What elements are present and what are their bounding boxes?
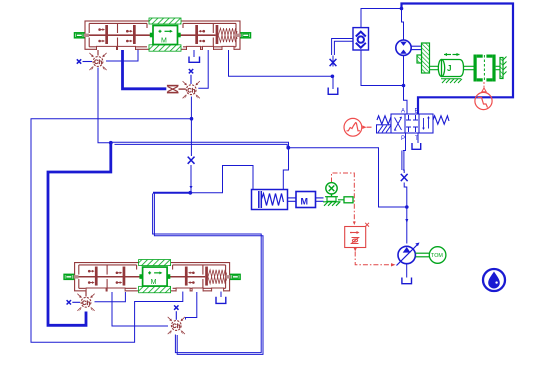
- node J7 junction dot: [188, 191, 192, 195]
- svg-text:M: M: [161, 38, 167, 45]
- red dash-dot link from box to pump P2: [355, 252, 391, 265]
- svg-text:TOM: TOM: [431, 253, 443, 259]
- wire: thick loop from J1 over top right down to valve port B: [402, 4, 514, 115]
- node J3 junction dot: [405, 205, 409, 209]
- wire: top tank stub: [193, 50, 195, 58]
- chamber Ch1b: [77, 294, 94, 312]
- clutch gap dashed line: [483, 55, 485, 81]
- red x marker at box corner: [365, 223, 369, 227]
- wire: top valve stub to Ch1a right pin: [106, 50, 138, 62]
- position transducer XD1 (green circle with X): [326, 183, 337, 197]
- wire: top valve stub down to Ch2a right pin: [198, 50, 208, 88]
- hydraulic cylinder CYL1: [252, 190, 288, 210]
- shaft inertia to clutch: [464, 66, 474, 69]
- wire: pump P1 bottom to junction J2: [403, 55, 405, 85]
- return spring: [218, 28, 237, 42]
- spool rod: [85, 34, 216, 36]
- chamber arrows: [99, 28, 205, 42]
- tank T3 under pump P2: [402, 278, 412, 284]
- tank T0 under top valve: [189, 57, 200, 63]
- wire: thick line J4 down-left-down to Ch1b bottom: [48, 143, 111, 325]
- node J8 junction dot: [331, 75, 335, 79]
- mass box M (green): [150, 26, 181, 45]
- left mech connector (green): [75, 33, 85, 38]
- wire: pump P2 bottom to tank T3: [406, 264, 408, 278]
- signal pin x of Ch1b: [67, 300, 80, 304]
- wire: double pair long loop to Ch2b: [153, 194, 262, 353]
- rotary inertia J1r: [438, 60, 463, 77]
- arrow into pump swashplate: [391, 263, 396, 266]
- svg-text:A: A: [401, 109, 405, 115]
- arrow at box bottom: [354, 248, 357, 252]
- wire: valve port T stub to tank T2: [417, 133, 419, 143]
- tank T4 under bottom valve: [216, 297, 226, 304]
- wire: orifice O2 to junction J7: [190, 165, 192, 193]
- clutch right plate: [486, 55, 495, 82]
- wire: J2 left to check valve bottom: [361, 50, 404, 86]
- orifice O1: [330, 59, 337, 66]
- rod mass to transducer: [316, 198, 324, 201]
- rotary sensor S1 (red circle): [475, 92, 492, 109]
- signal pin x of Ch2b: [174, 305, 178, 319]
- right mech connector (green): [241, 33, 251, 38]
- valve body casing: [85, 21, 240, 49]
- wire: check valve top to junction J1: [361, 9, 402, 28]
- arrows above inertia: [444, 53, 460, 56]
- svg-text:Ch: Ch: [94, 59, 102, 66]
- DV1 left cell crossed arrows: [394, 117, 402, 131]
- wire: orifice O3 down to junction J3: [404, 183, 407, 244]
- bottom port notches: [97, 46, 235, 50]
- transducer pedestal with ground: [323, 197, 341, 206]
- tank T1: [328, 88, 338, 95]
- pipe: double lines from O1 up to check valve left: [332, 39, 353, 56]
- shaft pump P2 to TOM: [415, 253, 429, 257]
- svg-text:T: T: [415, 136, 419, 142]
- arrow above J7: [190, 186, 193, 189]
- piston rod to mass: [288, 198, 297, 201]
- chamber Ch2b: [168, 317, 185, 335]
- wire: top valve thick stub to butterfly: [123, 50, 167, 89]
- DV1 left solenoid box: [377, 125, 392, 133]
- tank T2 under valve T port: [412, 143, 421, 149]
- left connector pad: [84, 34, 89, 37]
- arrow into J6: [190, 117, 193, 120]
- wire: J2 down to valve port A: [404, 86, 408, 115]
- DV1 centre cell blocked ports: [406, 115, 418, 132]
- wire: J5 down to cylinder head port: [283, 148, 288, 190]
- wire: J1 down to pump P1 top: [402, 9, 404, 41]
- wire: Ch2a bottom down through J6 to orifice O2: [190, 97, 192, 157]
- wire: J7 right staircase to cylinder rod-side port: [190, 166, 253, 193]
- node J1 junction dot: [400, 7, 404, 11]
- node J2 junction dot: [402, 84, 406, 88]
- wire: J7 left to pair corner: [153, 192, 190, 194]
- svg-text:M: M: [301, 197, 309, 207]
- prime mover TOM: [429, 247, 446, 264]
- node J4 junction dot: [109, 141, 113, 145]
- DV1 right cell straight arrows: [422, 116, 430, 130]
- signal pin x of Ch2a: [189, 69, 193, 84]
- orifice O3: [401, 174, 408, 181]
- signal source SRC1 (red circle with ramp): [344, 118, 372, 136]
- chamber Ch1a: [89, 53, 106, 71]
- shaft pump P1 to rack: [411, 46, 421, 49]
- arrow into box top: [353, 222, 356, 226]
- link to anchor block: [338, 199, 344, 201]
- green hatched strips: [149, 18, 181, 24]
- node J5 junction dot: [286, 146, 290, 150]
- wire: double pair from J4 to cylinder node J5: [112, 141, 289, 143]
- wire: long run from cylinder node to J3: [289, 148, 407, 207]
- piston bars: [105, 25, 218, 44]
- red dash-dot link from transducer to box: [332, 173, 355, 222]
- DV1 right spring: [433, 116, 449, 124]
- wire: Ch1a bottom down to junction J4: [98, 68, 111, 143]
- node J6 junction dot: [190, 117, 194, 121]
- shaft rack to inertia J: [430, 66, 439, 69]
- wire: J8 down to tank T1: [332, 76, 334, 89]
- anchor block (green): [344, 197, 353, 203]
- maroon stub valve to Ch1b: [85, 292, 87, 297]
- check valve CV1: [353, 28, 369, 50]
- signal control box SB1 (red): [345, 227, 366, 248]
- orifice O2: [188, 157, 195, 164]
- fluid properties icon DROP: [483, 269, 505, 291]
- svg-text:P: P: [401, 136, 405, 142]
- pump P2 variable displacement: [397, 243, 420, 266]
- rack gear element (green): [417, 43, 430, 73]
- butterfly orifice BF1: [167, 85, 186, 94]
- wire: bottom valve stub D to Ch2b NE pin: [186, 292, 197, 320]
- wire: J8 up to orifice O1: [332, 56, 334, 67]
- clutch output shaft stub: [496, 66, 500, 69]
- svg-text:J: J: [447, 64, 451, 73]
- signal pin x of Ch1a: [77, 59, 92, 63]
- wall anchor right of clutch: [500, 57, 507, 79]
- clutch left plate: [474, 55, 483, 82]
- wire: bottom valve stub A down right to Ch2b left pin: [112, 292, 168, 326]
- wire: top valve right stub to junction J8: [229, 50, 333, 76]
- wire: long left loop from bottom valve port to junction J6: [31, 119, 190, 342]
- DV1 port labels: [401, 109, 419, 143]
- right connector pad: [236, 34, 241, 37]
- pump P1 (hydraulic motor): [396, 40, 411, 55]
- wire: bottom tank stub: [220, 291, 222, 298]
- wire: bottom valve stub B left to Ch1b right pin: [95, 292, 126, 302]
- chamber Ch2a: [183, 81, 200, 99]
- red dashed link clutch to sensor: [482, 82, 486, 92]
- ground under inertia: [441, 79, 462, 83]
- wire: valve port P down to orifice O3: [403, 133, 406, 151]
- directional valve DV1 body: [391, 114, 433, 133]
- DV1 left spring: [377, 116, 391, 124]
- svg-text:B: B: [415, 109, 419, 115]
- mass block M1: [296, 192, 316, 208]
- maroon stub valve to Ch1a: [97, 50, 99, 56]
- pipe: double line on P drop: [401, 151, 403, 171]
- arrow on pump2 feed line: [405, 219, 408, 223]
